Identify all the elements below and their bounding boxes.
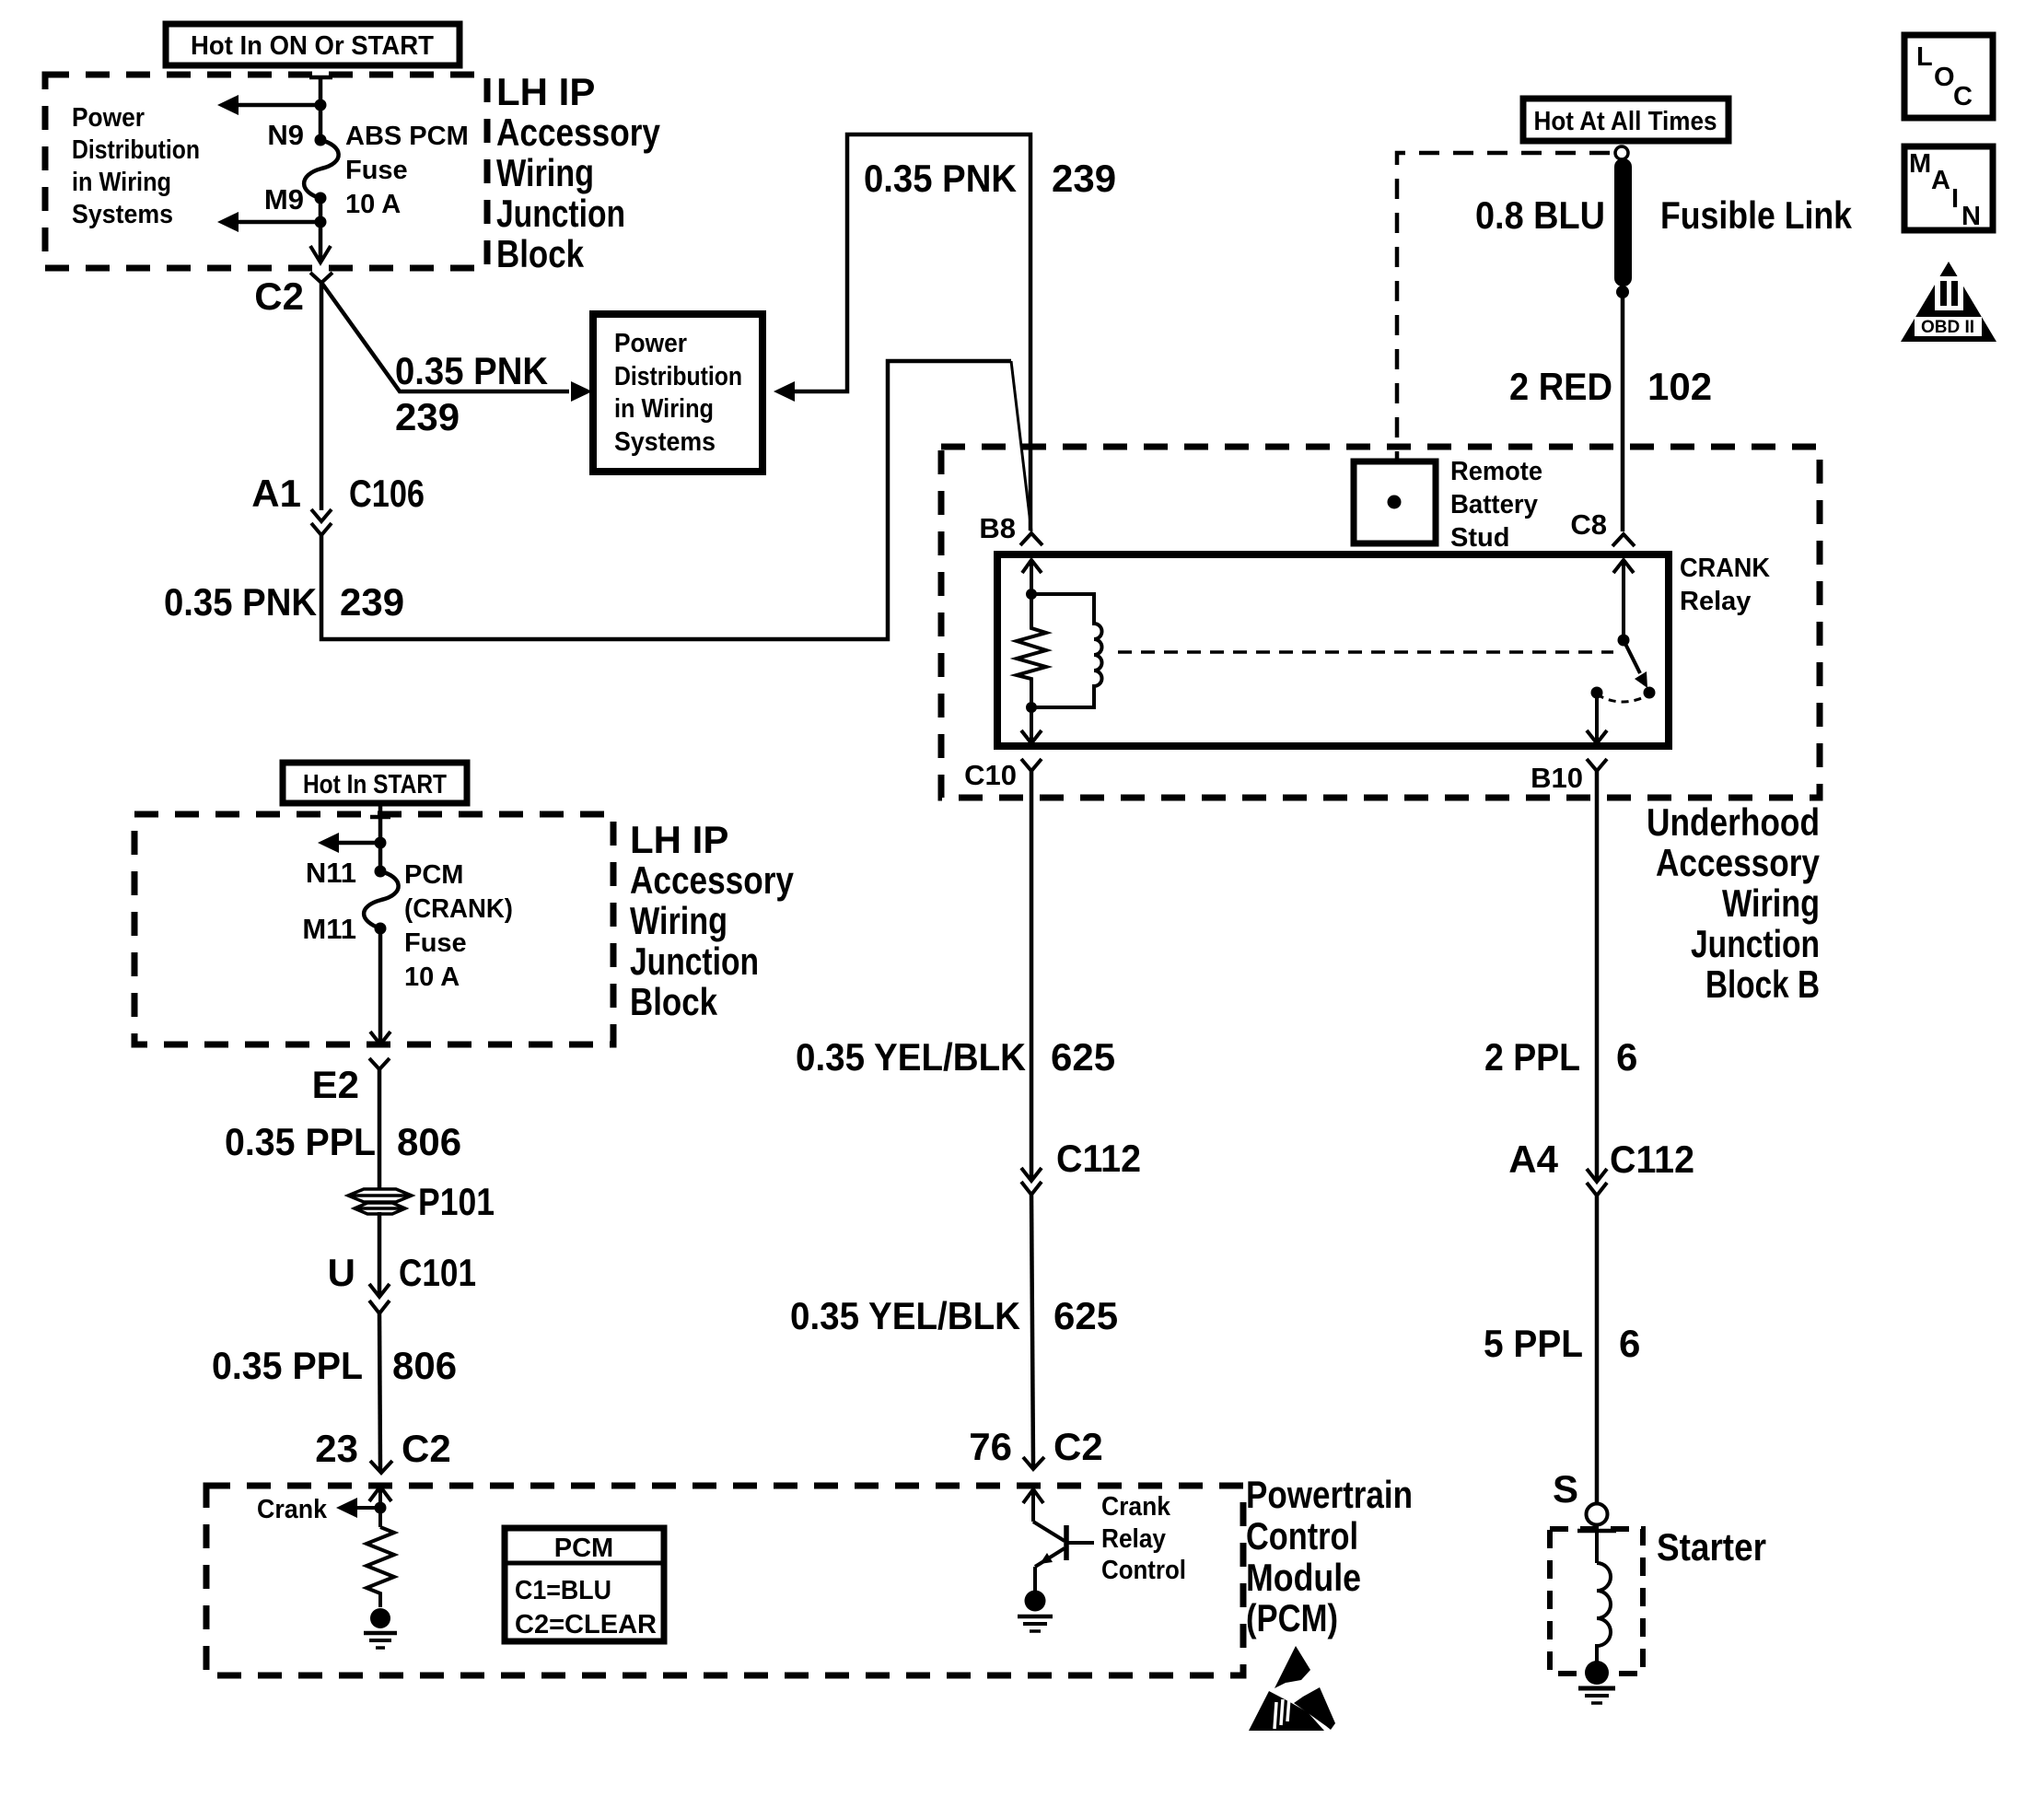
node: crank signal junction	[375, 1502, 387, 1514]
svg-text:Fuse: Fuse	[345, 156, 408, 185]
svg-text:806: 806	[397, 1120, 461, 1163]
starter dashed box	[1550, 1529, 1643, 1674]
svg-text:2 PPL: 2 PPL	[1484, 1035, 1580, 1079]
switch contact (right)	[1644, 687, 1656, 699]
relay K1: CRANK Relay box	[997, 554, 1669, 746]
header box: Hot In START	[283, 763, 467, 803]
svg-text:Accessory: Accessory	[496, 111, 661, 154]
svg-text:C8: C8	[1570, 508, 1607, 541]
transistor Q1: crank relay driver	[1033, 1522, 1065, 1541]
PCM connector table	[505, 1528, 664, 1641]
svg-text:C10: C10	[964, 759, 1017, 791]
svg-text:N11: N11	[306, 857, 356, 889]
wire: arrow to other circuits (upper)	[238, 103, 320, 108]
svg-text:Crank: Crank	[257, 1495, 328, 1524]
connector exit arrow at dashed border	[370, 1032, 390, 1044]
svg-text:(PCM): (PCM)	[1246, 1596, 1338, 1639]
wire: branch from C2 to Power Distribution box	[322, 284, 569, 391]
splice P101	[348, 1189, 412, 1214]
svg-text:23: 23	[315, 1427, 358, 1470]
svg-text:Module: Module	[1246, 1556, 1361, 1599]
svg-text:N: N	[1961, 202, 1981, 231]
wire: below fuse	[319, 198, 323, 261]
wire: 2 PPL 6 from B10 down	[1595, 771, 1600, 1182]
svg-text:Crank: Crank	[1101, 1492, 1171, 1522]
svg-text:Distribution: Distribution	[72, 135, 200, 165]
wire: arrow to other circuits	[339, 841, 380, 846]
wire: 2 RED 102 down to C8	[1621, 292, 1625, 531]
svg-text:A1: A1	[251, 472, 301, 515]
svg-text:C1=BLU: C1=BLU	[515, 1576, 611, 1605]
pin M11	[375, 923, 387, 935]
wire: start feed into junction block	[378, 803, 383, 871]
svg-text:Wiring: Wiring	[1722, 881, 1820, 925]
svg-text:0.35 PPL: 0.35 PPL	[212, 1344, 363, 1387]
svg-text:806: 806	[392, 1344, 457, 1387]
svg-text:C112: C112	[1056, 1137, 1141, 1180]
connector C10	[1021, 759, 1042, 771]
fuse F1: ABS PCM Fuse 10 A	[304, 140, 339, 198]
svg-text:Distribution: Distribution	[614, 362, 742, 391]
icon: MAIN box	[1904, 146, 1993, 230]
svg-text:Hot In ON Or START: Hot In ON Or START	[191, 31, 434, 61]
connector C2 (junction block)	[310, 273, 332, 283]
svg-text:Block B: Block B	[1705, 962, 1820, 1006]
svg-text:6: 6	[1619, 1322, 1640, 1365]
node: below fusible link	[1616, 286, 1629, 298]
svg-text:C112: C112	[1610, 1137, 1694, 1181]
svg-text:C2: C2	[254, 274, 304, 318]
svg-text:Relay: Relay	[1101, 1524, 1166, 1554]
header box: Hot In ON Or START	[166, 24, 460, 65]
svg-text:A: A	[1931, 166, 1950, 195]
svg-text:Accessory: Accessory	[1656, 841, 1821, 884]
pin B10 exit arrow inside relay	[1595, 693, 1599, 742]
starter solenoid terminal bar	[1577, 1529, 1616, 1534]
pin 76 entry arrow inside PCM	[1023, 1489, 1043, 1503]
svg-text:0.35 PNK: 0.35 PNK	[164, 580, 317, 624]
wire: 5 PPL 6 to starter	[1595, 1196, 1600, 1503]
svg-text:Relay: Relay	[1680, 587, 1751, 616]
switch contact (left, to B10)	[1591, 687, 1603, 699]
svg-text:Wiring: Wiring	[496, 151, 594, 194]
svg-text:LH IP: LH IP	[630, 818, 728, 861]
wire: 0.35 PPL 806 to P101	[378, 1069, 382, 1190]
box: Power Distribution in Wiring Systems	[593, 314, 762, 472]
icon: OBD II triangle	[1901, 262, 1996, 342]
svg-text:S: S	[1553, 1467, 1578, 1511]
svg-text:Junction: Junction	[1691, 922, 1820, 965]
svg-text:E2: E2	[312, 1063, 359, 1106]
svg-text:Wiring: Wiring	[630, 899, 727, 942]
svg-text:Starter: Starter	[1657, 1525, 1766, 1569]
header box: Hot At All Times	[1523, 99, 1729, 141]
svg-text:2 RED: 2 RED	[1509, 365, 1612, 408]
svg-text:C2: C2	[402, 1427, 451, 1470]
svg-text:Underhood: Underhood	[1647, 800, 1820, 844]
LH IP Accessory Wiring Junction Block (dashed box 2)	[134, 814, 613, 1044]
svg-text:Hot In START: Hot In START	[303, 770, 447, 799]
svg-text:10 A: 10 A	[404, 962, 460, 992]
svg-text:C106: C106	[349, 472, 425, 515]
wire: 0.35 PNK loop feeding Power Distribution (arrow into right side)	[774, 381, 795, 402]
wire: arrow to other circuits (lower)	[238, 220, 320, 225]
remote battery stud box	[1354, 461, 1436, 543]
svg-text:Junction: Junction	[496, 192, 625, 235]
svg-text:0.35 YEL/BLK: 0.35 YEL/BLK	[790, 1294, 1020, 1337]
svg-text:PCM: PCM	[404, 860, 463, 890]
pin B8 entry arrow inside relay	[1022, 560, 1042, 573]
node: splice at M9 feed	[315, 216, 327, 228]
wire: Crank arrow	[357, 1506, 380, 1510]
svg-text:M: M	[1909, 149, 1931, 179]
node: coil top junction	[1026, 589, 1037, 600]
svg-text:625: 625	[1053, 1294, 1118, 1337]
pin C10 exit arrow inside relay	[1030, 707, 1033, 742]
wire: P101 to C101	[378, 1212, 382, 1296]
ground G1 (PCM driver)	[1025, 1591, 1046, 1612]
svg-text:O: O	[1934, 63, 1955, 92]
switch arm with arrowhead	[1624, 640, 1640, 673]
svg-text:0.8 BLU: 0.8 BLU	[1475, 193, 1605, 237]
node: splice at N11 feed	[375, 837, 387, 849]
connector E2	[369, 1058, 390, 1069]
svg-text:Block: Block	[630, 980, 718, 1023]
svg-text:Fusible Link: Fusible Link	[1660, 193, 1853, 237]
svg-text:Control: Control	[1246, 1514, 1358, 1557]
Powertrain Control Module (PCM) dashed box	[206, 1486, 1243, 1675]
resistor (relay coil suppression)	[1017, 594, 1046, 707]
svg-text:CRANK: CRANK	[1680, 554, 1770, 583]
svg-text:LH IP: LH IP	[496, 70, 595, 113]
pin M9	[315, 192, 327, 204]
svg-text:in Wiring: in Wiring	[72, 168, 171, 197]
svg-text:M9: M9	[264, 183, 304, 216]
wire: dashed link to Remote Battery Stud	[1397, 153, 1610, 461]
svg-text:PCM: PCM	[554, 1534, 613, 1563]
svg-text:I: I	[1951, 184, 1959, 214]
svg-text:Systems: Systems	[614, 427, 716, 457]
dashed contact arc	[1597, 694, 1649, 702]
wire: below fuse to dashed border	[378, 928, 383, 1044]
wire: emitter to ground	[1033, 1567, 1037, 1593]
svg-text:6: 6	[1616, 1035, 1637, 1079]
svg-text:239: 239	[340, 580, 404, 624]
wire: ignition feed into junction block	[319, 77, 323, 140]
svg-text:0.35 PNK: 0.35 PNK	[864, 157, 1017, 200]
pin 23 entry arrow inside PCM	[369, 1487, 391, 1501]
svg-text:Power: Power	[72, 103, 145, 133]
svg-text:Fuse: Fuse	[404, 928, 467, 958]
dashed actuation link	[1118, 650, 1613, 654]
node: coil bottom junction	[1026, 702, 1037, 713]
svg-text:P101: P101	[418, 1180, 495, 1223]
ground G2 (starter)	[1585, 1661, 1609, 1685]
icon: LOC box	[1904, 35, 1993, 118]
svg-text:Powertrain: Powertrain	[1246, 1473, 1413, 1516]
svg-text:0.35 PNK: 0.35 PNK	[395, 349, 548, 392]
svg-text:0.35 YEL/BLK: 0.35 YEL/BLK	[796, 1035, 1026, 1079]
svg-text:102: 102	[1647, 365, 1712, 408]
svg-text:Remote: Remote	[1450, 457, 1542, 486]
connector B10	[1587, 759, 1607, 771]
svg-text:76: 76	[969, 1425, 1012, 1468]
svg-text:Accessory: Accessory	[630, 858, 795, 902]
svg-text:N9: N9	[267, 119, 304, 151]
svg-text:239: 239	[395, 395, 460, 438]
svg-text:B10: B10	[1531, 762, 1583, 794]
svg-text:in Wiring: in Wiring	[614, 394, 714, 424]
LH IP Accessory Wiring Junction Block (dashed box 1)	[45, 75, 487, 268]
svg-text:ABS PCM: ABS PCM	[345, 122, 469, 151]
svg-text:M11: M11	[302, 913, 356, 945]
svg-text:Battery: Battery	[1450, 490, 1538, 519]
svg-text:Control: Control	[1101, 1556, 1186, 1585]
svg-text:Systems: Systems	[72, 200, 173, 229]
svg-text:C101: C101	[399, 1251, 476, 1294]
node: battery feed terminal (open circle)	[1615, 146, 1628, 159]
wire: 0.35 PNK 239 from C106 across to relay B8	[321, 361, 1011, 639]
node: splice at N9 feed	[315, 99, 327, 111]
relay coil L1	[1031, 594, 1102, 707]
svg-text:239: 239	[1052, 157, 1116, 200]
svg-text:Stud: Stud	[1450, 523, 1509, 553]
wire: 0.35 YEL/BLK 625 to PCM	[1031, 1195, 1033, 1466]
svg-text:A4: A4	[1508, 1137, 1558, 1181]
svg-text:C2=CLEAR: C2=CLEAR	[515, 1610, 657, 1639]
svg-text:(CRANK): (CRANK)	[404, 894, 513, 924]
connector exit arrow at dashed border	[310, 246, 331, 262]
svg-text:0.35 PPL: 0.35 PPL	[225, 1120, 376, 1163]
Underhood Accessory Wiring Junction Block B (dashed box)	[941, 447, 1820, 798]
starter solenoid coil	[1597, 1563, 1611, 1669]
svg-text:Block: Block	[496, 232, 585, 275]
svg-text:U: U	[328, 1251, 355, 1294]
switch pivot	[1618, 635, 1630, 647]
resistor (PCM pull-down)	[367, 1527, 394, 1607]
svg-text:10 A: 10 A	[345, 190, 401, 219]
svg-text:Power: Power	[614, 329, 687, 358]
svg-text:Junction: Junction	[630, 939, 759, 983]
ground G3 (PCM crank input)	[370, 1608, 390, 1628]
fuse F2: PCM (CRANK) Fuse 10 A	[364, 871, 399, 928]
wire: 0.35 PNK 239 down to C106	[320, 283, 324, 510]
svg-text:L: L	[1916, 42, 1933, 72]
wire: 0.35 YEL/BLK 625 from C10 down	[1030, 771, 1034, 1181]
svg-text:B8: B8	[979, 512, 1016, 544]
svg-text:Hot At All Times: Hot At All Times	[1534, 107, 1717, 136]
svg-text:OBD II: OBD II	[1921, 318, 1974, 337]
svg-text:C2: C2	[1053, 1425, 1103, 1468]
svg-text:625: 625	[1051, 1035, 1115, 1079]
svg-text:5 PPL: 5 PPL	[1484, 1322, 1583, 1365]
ESD symbol	[1275, 1646, 1310, 1688]
svg-text:C: C	[1953, 82, 1973, 111]
wire: 0.35 PPL 806 to PCM	[379, 1313, 380, 1471]
pin C8 entry arrow inside relay	[1613, 560, 1634, 573]
fusible link (0.8 BLU)	[1614, 158, 1632, 286]
